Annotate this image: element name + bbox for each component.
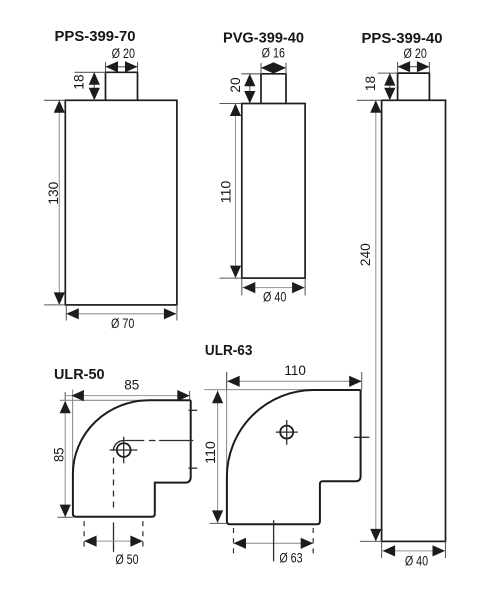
label O 63 bbox=[279, 551, 302, 566]
dimension 20 neck height PVG-399-40 bbox=[241, 74, 261, 104]
PPS-399-40 body outline bbox=[382, 100, 446, 541]
dimension 18 neck height PPS-399-40 bbox=[378, 73, 398, 100]
svg-text:Ø 63: Ø 63 bbox=[279, 551, 302, 566]
label O 20 bbox=[112, 46, 135, 61]
dimension 240 body height PPS-399-40 bbox=[357, 100, 382, 541]
dimension O16 top of PVG-399-40 diamond arrows bbox=[261, 62, 286, 74]
PVG-399-40 neck outline bbox=[261, 74, 286, 104]
PPS-399-40 neck outline bbox=[398, 73, 430, 100]
label 110 left ULR bbox=[203, 441, 218, 464]
svg-text:110: 110 bbox=[284, 363, 306, 378]
ULR-50 centre line fillet arc bbox=[113, 441, 123, 451]
dimension 85 left of ULR-50 bbox=[58, 400, 73, 517]
label O 40 right bbox=[405, 554, 428, 569]
svg-text:110: 110 bbox=[203, 441, 218, 464]
PVG-399-40 body outline bbox=[242, 104, 305, 279]
dimension O40 bottom of PVG-399-40 bbox=[242, 278, 305, 295]
label O 16 bbox=[262, 46, 285, 61]
svg-text:Ø 20: Ø 20 bbox=[112, 46, 135, 61]
ULR-50 fixing hole with crosshair bbox=[110, 437, 138, 464]
svg-text:18: 18 bbox=[72, 74, 87, 89]
svg-text:PVG-399-40: PVG-399-40 bbox=[223, 30, 304, 47]
svg-text:240: 240 bbox=[358, 243, 373, 266]
svg-text:85: 85 bbox=[51, 448, 66, 463]
svg-text:110: 110 bbox=[218, 181, 233, 204]
ULR-63 axis tick right edge bbox=[354, 436, 370, 438]
svg-text:ULR-63: ULR-63 bbox=[205, 342, 253, 359]
ULR-63 fixing hole with crosshair bbox=[276, 420, 298, 445]
dimension O70 bottom of PPS-399-70 bbox=[65, 305, 177, 321]
dimension 110 left of ULR-63 bbox=[210, 390, 227, 523]
svg-text:PPS-399-40: PPS-399-40 bbox=[362, 30, 443, 47]
svg-text:PPS-399-70: PPS-399-70 bbox=[55, 28, 136, 45]
label O 70 bbox=[111, 316, 134, 331]
dimension O63 bottom of ULR-63 bbox=[234, 528, 314, 559]
title ULR-50 bbox=[54, 366, 105, 383]
ULR-63 top and left reference lines bbox=[204, 372, 360, 477]
svg-text:Ø 40: Ø 40 bbox=[405, 554, 428, 569]
svg-text:Ø 70: Ø 70 bbox=[111, 316, 134, 331]
title PPS-399-70 bbox=[55, 28, 136, 45]
title PVG-399-40 bbox=[223, 30, 304, 47]
dimension 130 body height PPS-399-70 bbox=[44, 100, 65, 305]
ULR-50 vertical pipe axis dashed bbox=[113, 458, 115, 552]
label 240 bbox=[358, 243, 373, 266]
label 18 bbox=[72, 74, 87, 89]
svg-text:ULR-50: ULR-50 bbox=[54, 366, 105, 383]
label 18 right bbox=[363, 76, 378, 91]
label O 50 bbox=[115, 552, 138, 567]
label 130 bbox=[46, 182, 61, 205]
label 20 bbox=[228, 77, 243, 92]
dimension O50 bottom of ULR-50 bbox=[84, 521, 143, 550]
title ULR-63 bbox=[205, 342, 253, 359]
svg-text:Ø 20: Ø 20 bbox=[404, 46, 427, 61]
ULR-50 socket depth ticks right edge bbox=[189, 410, 198, 468]
dimension 18 neck height PPS-399-70 bbox=[75, 72, 106, 100]
label O 20 right bbox=[404, 46, 427, 61]
svg-text:Ø 16: Ø 16 bbox=[262, 46, 285, 61]
svg-text:Ø 40: Ø 40 bbox=[263, 290, 286, 305]
dimension 110 top of ULR-63 bbox=[227, 372, 362, 390]
svg-text:130: 130 bbox=[46, 182, 61, 205]
svg-text:85: 85 bbox=[124, 378, 139, 393]
ULR-63 elbow outline bbox=[227, 390, 361, 524]
label O 40 PVG bbox=[263, 290, 286, 305]
dimension O20 top of PPS-399-70 bbox=[106, 61, 138, 72]
dimension 85 top of ULR-50 bbox=[65, 390, 190, 401]
label 110 left PVG bbox=[218, 181, 233, 204]
PPS-399-70 body outline bbox=[65, 100, 177, 305]
ULR-50 top and left reference lines bbox=[60, 390, 191, 475]
label 85 left bbox=[51, 448, 66, 463]
dimension O40 bottom of PPS-399-40 bbox=[382, 541, 446, 558]
label 110 top bbox=[284, 363, 306, 378]
PPS-399-70 neck outline bbox=[106, 72, 138, 100]
dimension 110 body height PVG-399-40 bbox=[219, 104, 241, 279]
svg-text:20: 20 bbox=[228, 77, 243, 92]
ULR-50 horizontal pipe axis dash-dot bbox=[124, 440, 194, 442]
ULR-50 elbow outline bbox=[73, 400, 191, 517]
svg-text:18: 18 bbox=[363, 76, 378, 91]
dimension O20 top of PPS-399-40 bbox=[398, 61, 430, 73]
svg-text:Ø 50: Ø 50 bbox=[115, 552, 138, 567]
label 85 top bbox=[124, 378, 139, 393]
title PPS-399-40 bbox=[362, 30, 443, 47]
ULR-63 bottom centre line bbox=[273, 520, 275, 561]
